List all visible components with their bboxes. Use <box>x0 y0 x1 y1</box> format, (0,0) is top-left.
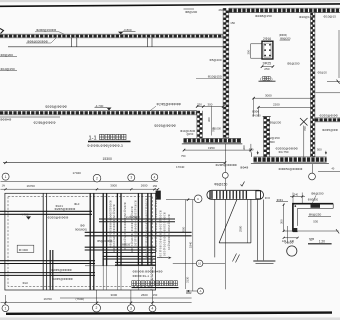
svg-text:Φ2Φ5@150ΦΦΦΦΦΦΦ2Φ5@150: Φ2Φ5@150ΦΦΦΦΦΦΦ2Φ5@150 <box>134 200 138 247</box>
svg-text:2: 2 <box>96 306 98 310</box>
svg-text:ΦΦ150: ΦΦ150 <box>122 244 131 247</box>
clipped dim line at right edge <box>338 30 340 78</box>
YP detail L-shaped slab/wall section <box>293 204 333 232</box>
svg-text:2-2Φ25@Φ: 2-2Φ25@Φ <box>126 215 140 219</box>
svg-text:300: 300 <box>280 219 284 224</box>
svg-text:3130: 3130 <box>185 276 189 283</box>
thin line right of wall D upper <box>315 92 340 94</box>
plan outer rectangle <box>5 193 156 290</box>
vertical dim stack in central detail <box>210 106 212 135</box>
dim 250 under column <box>262 66 273 68</box>
YP bottom dim 120/240 <box>284 237 298 239</box>
svg-text:Φ6Φ250: Φ6Φ250 <box>308 197 319 201</box>
dim line to levels B/A <box>192 200 194 291</box>
svg-text:3000: 3000 <box>111 293 118 297</box>
svg-text:Φ2Φ8@150: Φ2Φ8@150 <box>255 14 272 18</box>
svg-text:2Φ16: 2Φ16 <box>263 37 271 41</box>
plan wall 4: double thick line <box>116 193 118 266</box>
svg-text:Φ8@200: Φ8@200 <box>1 53 14 57</box>
svg-text:300: 300 <box>207 117 211 122</box>
svg-text:530: 530 <box>313 220 318 224</box>
svg-text:17040: 17040 <box>176 165 185 169</box>
basement floor slab, hatched <box>0 111 197 115</box>
svg-text:@150: @150 <box>187 133 194 136</box>
column section detail: vertical dim with leaders <box>250 44 252 58</box>
capsule beam section with hatch ticks <box>207 190 264 199</box>
svg-text:250: 250 <box>197 103 202 107</box>
svg-text:300: 300 <box>246 49 250 54</box>
lower slab right of wall, hatched <box>315 118 340 122</box>
svg-text:Φ10@150: Φ10@150 <box>1 67 15 71</box>
svg-text:ΦΦ#Φ: ΦΦ#Φ <box>240 165 249 169</box>
svg-text:Φ2Φ5@ΦΦΦΦ: Φ2Φ5@ΦΦΦΦ <box>154 124 176 128</box>
svg-text:4: 4 <box>154 175 156 179</box>
svg-text:150: 150 <box>230 21 235 25</box>
svg-text:Φ=300: Φ=300 <box>19 248 28 252</box>
svg-text:Φ=6: Φ=6 <box>265 196 271 200</box>
svg-text:300: 300 <box>242 145 246 150</box>
plan wall 6: double thick line <box>147 193 149 266</box>
svg-text:Φ2Φ5@150ΦΦΦΦΦΦΦΦ2Φ5@150ΦΦΦΦ: Φ2Φ5@150ΦΦΦΦΦΦΦΦ2Φ5@150ΦΦΦΦ <box>145 198 149 258</box>
wall elevation outline below capsule <box>214 199 216 257</box>
plan beam row 5 (double line) <box>0 272 95 274</box>
svg-text:300: 300 <box>208 103 213 107</box>
dark anchorage segment on YP slab <box>311 204 321 208</box>
svg-text:Φ2Φ5@ΦΦΦ: Φ2Φ5@ΦΦΦ <box>320 114 339 118</box>
plan beam row 3b (double line) <box>103 255 156 257</box>
scan edge shading bottom <box>0 317 340 320</box>
right wall section, hatched <box>310 13 315 157</box>
svg-text:2600: 2600 <box>141 293 148 297</box>
svg-text:Φ2Φ5@ΦΦ: Φ2Φ5@ΦΦ <box>322 128 339 132</box>
svg-text:YP: YP <box>309 237 315 242</box>
thin beam line across plan right cluster <box>85 265 156 267</box>
end block inside capsule right <box>256 191 261 199</box>
svg-text:Φ5@200: Φ5@200 <box>287 61 300 65</box>
pit wall cap <box>263 116 271 118</box>
svg-text:240: 240 <box>294 193 299 197</box>
svg-text:3000: 3000 <box>110 184 117 188</box>
dim drop stubs to pit wall <box>253 98 255 116</box>
svg-text:Φ2Φ5@ΦΦΦΦ: Φ2Φ5@ΦΦΦΦ <box>48 215 69 219</box>
axis stubs to bottom bubbles <box>4 295 6 305</box>
svg-text:16700: 16700 <box>27 184 36 188</box>
svg-text:2600: 2600 <box>141 184 148 188</box>
svg-text:): ) <box>271 77 273 81</box>
svg-text:Φ2Φ8@150ΦΦ: Φ2Φ8@150ΦΦ <box>36 28 57 32</box>
plan beam row 4 (double line) <box>0 260 95 262</box>
empty detail circle <box>287 246 297 256</box>
plan beam JL01 (double line) <box>0 210 92 212</box>
svg-text:1%: 1% <box>2 185 6 188</box>
tall dim line left of wall detail <box>185 200 187 289</box>
svg-text:Φ.ΦΦΦLΦΦΦ(ΦΦΦΦ-3: Φ.ΦΦΦLΦΦΦ(ΦΦΦΦ-3 <box>87 144 123 148</box>
svg-text:Φ2Φ5@ΦΦΦΦ: Φ2Φ5@ΦΦΦΦ <box>216 163 238 167</box>
plan wall axis 2: double thick line <box>89 193 91 290</box>
axis bubble 3 bottom <box>128 305 135 312</box>
drawing frame top border <box>0 4 340 6</box>
svg-text:Φ2Φ5@150ΦΦΦΦΦΦΦ2Φ5@150ΦΦ: Φ2Φ5@150ΦΦΦΦΦΦΦ2Φ5@150ΦΦ <box>112 204 116 252</box>
svg-text:Φ2Φ5@150ΦΦΦΦΦΦ2Φ5@150: Φ2Φ5@150ΦΦΦΦΦΦ2Φ5@150 <box>159 210 163 259</box>
svg-text:Φ10@150: Φ10@150 <box>208 75 222 79</box>
svg-text:900(600): 900(600) <box>75 228 87 232</box>
svg-text:40: 40 <box>332 168 335 171</box>
svg-text:-4.700: -4.700 <box>20 213 29 217</box>
plan wall 5: double thick line <box>137 193 139 266</box>
bedding layer line under left footing <box>182 143 243 145</box>
plan wall 3: double thick line <box>102 193 104 266</box>
plan title with underline <box>132 281 178 286</box>
plan wall axis A: double line <box>42 193 44 290</box>
footing step lines <box>240 138 242 143</box>
svg-text:3: 3 <box>130 176 132 180</box>
corner column dark blob at plan top-right <box>156 191 161 200</box>
svg-text:Φ8@200: Φ8@200 <box>280 36 291 40</box>
svg-text:ΦL0: ΦL0 <box>23 281 29 285</box>
svg-text:2200: 2200 <box>273 102 280 106</box>
svg-text:15300: 15300 <box>103 157 113 161</box>
svg-text:Φ2Φ5@ΦΦΦΦΦ: Φ2Φ5@ΦΦΦΦΦ <box>157 102 182 106</box>
axis bubble 3 top <box>128 174 135 181</box>
label phi8@200 with overline, top-left of wall <box>184 8 195 10</box>
YP bottom long dim line <box>284 230 339 232</box>
svg-text:Φ2Φ5@ΦΦΦΦ: Φ2Φ5@ΦΦΦΦ <box>52 277 73 281</box>
plan beam row 3 (double line) <box>85 246 156 248</box>
dark fill at YP wall bottom <box>293 228 297 232</box>
plan wall stub lower-left: double line <box>49 250 51 290</box>
axis line and bubble under right wall <box>311 164 313 173</box>
svg-text:1800: 1800 <box>269 140 276 144</box>
svg-text:Φ2Φ5@150ΦΦΦΦ2Φ5@15: Φ2Φ5@150ΦΦΦΦ2Φ5@15 <box>167 214 171 251</box>
axis bubble 4 top <box>151 174 158 181</box>
slab step vertical 1 <box>146 38 148 47</box>
basement wall pier, hatched <box>197 111 203 139</box>
svg-text:1950: 1950 <box>208 146 215 150</box>
YP top dim 240 <box>292 193 294 204</box>
axis line from footing to detail bubble <box>224 144 226 173</box>
twin verticals from end block down <box>256 200 258 261</box>
svg-text:150: 150 <box>153 184 158 188</box>
axis bubble 1 bottom <box>2 305 9 312</box>
svg-text:4: 4 <box>152 307 154 311</box>
small arrow symbol <box>157 257 168 259</box>
svg-text:Φ8@200: Φ8@200 <box>185 10 197 14</box>
svg-text:ΦΦ1: ΦΦ1 <box>277 198 284 202</box>
cut mark at left edge above slab <box>0 29 4 34</box>
svg-text:500: 500 <box>317 148 322 152</box>
svg-text:ΦΦΦ#Φ: ΦΦΦ#Φ <box>0 118 12 122</box>
svg-text:2: 2 <box>96 176 98 180</box>
strip footing right, hatched <box>254 157 327 162</box>
svg-text:ΦΦ#: ΦΦ# <box>186 292 192 295</box>
pit wall left, hatched <box>264 117 270 157</box>
svg-text:ΦΦΦ50@ΦΦΦΦ: ΦΦΦ50@ΦΦΦΦ <box>279 167 303 171</box>
central wall section, hatched <box>223 8 229 138</box>
svg-text:150: 150 <box>153 293 158 297</box>
svg-text:Φ2Φ5@ΦΦΦΦ: Φ2Φ5@ΦΦΦΦ <box>55 207 76 211</box>
slab step vertical 3 <box>71 38 73 47</box>
right line of wall elevation <box>250 199 252 243</box>
svg-text:Φ2Φ5@150ΦΦΦΦΦΦΦ2Φ5@150ΦΦΦ: Φ2Φ5@150ΦΦΦΦΦΦΦ2Φ5@150ΦΦΦ <box>154 196 158 252</box>
plan beam row 3a (double line) <box>103 252 156 254</box>
bottom dim row outer <box>1 302 192 304</box>
svg-text:3Φ25: 3Φ25 <box>263 61 272 65</box>
svg-text:ΦL0: ΦL0 <box>74 202 80 206</box>
vertical stub under YP wall <box>287 226 289 243</box>
bedding layer line under right footing <box>251 163 329 165</box>
svg-text:Φ2Φ5@ΦΦΦΦ: Φ2Φ5@ΦΦΦΦ <box>34 121 56 125</box>
thin line under basement slab left <box>0 116 60 118</box>
dim line 250/300 above central detail <box>197 105 223 107</box>
svg-text:750: 750 <box>181 154 186 158</box>
slab step vertical 4 <box>76 38 78 47</box>
axis bubble 2 bottom <box>93 304 101 312</box>
svg-text:Φ5@200: Φ5@200 <box>269 121 281 125</box>
svg-text:ΦΦ|ΦΦ: ΦΦ|ΦΦ <box>285 241 294 245</box>
svg-text:Φ2Φ5@ΦΦΦΦ: Φ2Φ5@ΦΦΦΦ <box>45 105 67 109</box>
svg-text:250: 250 <box>264 67 269 71</box>
axis leader line with bubble C to capsule <box>166 199 194 201</box>
level line A with arrow and bubble <box>186 290 197 292</box>
svg-text:1:20: 1:20 <box>319 240 325 244</box>
long axis line below with break mark <box>224 199 226 289</box>
drawing frame bottom border <box>6 313 332 314</box>
plan beam mid (double line) <box>85 231 192 233</box>
column section rect with stirrup and rebar dots <box>262 41 273 59</box>
leader line to right edge <box>327 81 340 83</box>
strip footing left, hatched <box>184 138 241 143</box>
svg-text:ΦΦΦΦ ΦL-1: ΦΦΦΦ ΦL-1 <box>133 274 150 278</box>
svg-text:Φ8@150: Φ8@150 <box>214 183 227 187</box>
svg-text:Φ4.500: Φ4.500 <box>252 114 261 118</box>
base lines <box>253 260 275 262</box>
svg-text:2580: 2580 <box>239 225 243 232</box>
top beam/slab section at right, hatched <box>229 8 340 13</box>
svg-text:Φ2Φ5@150ΦΦΦΦΦ2Φ5@150: Φ2Φ5@150ΦΦΦΦΦ2Φ5@150 <box>163 212 167 257</box>
svg-text:(7640): (7640) <box>76 297 85 301</box>
scan edge shading top <box>0 0 340 2</box>
diagonal slope line <box>219 200 237 243</box>
svg-text:Φ6@250: Φ6@250 <box>309 213 322 217</box>
svg-text:1: 1 <box>5 175 7 179</box>
slab step vertical 2 <box>151 38 153 47</box>
boxed label H=300 <box>17 245 34 252</box>
svg-text:Φ4.750: Φ4.750 <box>279 150 289 154</box>
svg-text:Φ2Φ5@150ΦΦΦΦΦΦ2Φ5@150Φ: Φ2Φ5@150ΦΦΦΦΦΦ2Φ5@150Φ <box>130 206 134 252</box>
svg-text:17040: 17040 <box>73 171 82 175</box>
svg-text:C: C <box>197 197 199 201</box>
axis-row line <box>1 181 159 183</box>
axis bubble 2 top <box>93 174 101 182</box>
svg-text:Φ5@20: Φ5@20 <box>318 71 328 75</box>
ground line under upper slab <box>8 46 223 48</box>
svg-text:16700: 16700 <box>44 297 53 301</box>
svg-text:1: 1 <box>4 306 6 310</box>
vertical dim 2580 <box>246 200 248 243</box>
svg-text:Φ5@200: Φ5@200 <box>209 58 221 62</box>
leader line to right edge lower <box>318 170 340 172</box>
axis bubble 1 top <box>2 173 9 180</box>
svg-text:500: 500 <box>249 148 254 152</box>
svg-text:1940: 1940 <box>189 241 193 248</box>
svg-text:700: 700 <box>303 126 307 131</box>
axis bubble 4 bottom <box>149 305 156 312</box>
svg-text:(ΦΦΦ): (ΦΦΦ) <box>279 33 287 37</box>
svg-text:3: 3 <box>130 306 132 310</box>
svg-text:(: ( <box>260 77 262 81</box>
upper floor slab, hatched, with rebar labels <box>0 34 223 38</box>
bottom dim row inner <box>60 297 192 299</box>
svg-text:Φ5.000: Φ5.000 <box>212 127 221 131</box>
excavation cross mark <box>300 118 308 126</box>
svg-text:Φ10@15: Φ10@15 <box>324 14 337 18</box>
svg-text:Φ2Φ5@ΦΦΦΦ: Φ2Φ5@ΦΦΦΦ <box>51 268 72 272</box>
YP left vertical dim 300 <box>283 204 285 232</box>
svg-text:Φ8@200: Φ8@200 <box>311 192 324 196</box>
plan beam row at y220 (double line) <box>99 218 175 220</box>
level line B with bubble <box>173 262 225 264</box>
svg-text:Φ5@200ΦΦ: Φ5@200ΦΦ <box>97 239 112 243</box>
svg-text:A: A <box>200 289 202 293</box>
plan beam row 3c (double line) <box>115 261 156 263</box>
svg-text:7000: 7000 <box>181 226 185 233</box>
plan inner dashed rectangle <box>8 197 152 287</box>
vertical leader below cross <box>303 126 305 157</box>
svg-text:3000: 3000 <box>265 94 272 98</box>
bottom line of wall elevation <box>219 242 251 244</box>
